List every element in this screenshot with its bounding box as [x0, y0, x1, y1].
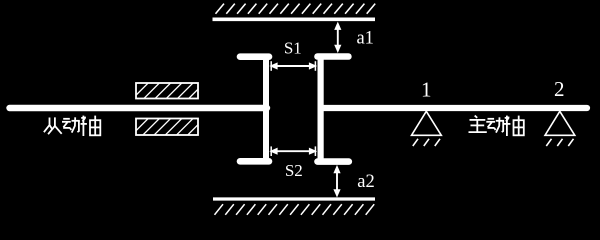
svg-text:2: 2 — [554, 77, 565, 101]
svg-text:S2: S2 — [285, 161, 303, 180]
svg-text:S1: S1 — [284, 38, 302, 57]
svg-text:a1: a1 — [356, 29, 373, 49]
svg-text:a2: a2 — [357, 172, 374, 192]
svg-text:1: 1 — [421, 77, 432, 101]
